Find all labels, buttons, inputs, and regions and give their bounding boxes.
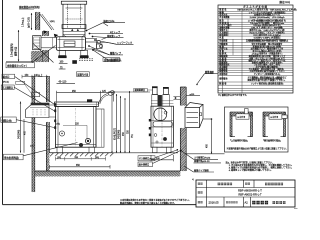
svg-text:本体固定ネジ(2ヶ): 本体固定ネジ(2ヶ) (7, 64, 27, 68)
shower head and hose (99, 90, 116, 104)
dim 950 / 125 (57, 91, 114, 102)
hatch patch below BF top (31, 51, 42, 62)
main body front view (56, 106, 97, 147)
example diagram 2: walls (263, 112, 286, 137)
svg-text:343(346): 343(346) (18, 130, 20, 139)
svg-text:11.6kW (10,000kcal/h)・LPG 0.84: 11.6kW (10,000kcal/h)・LPG 0.84kg/h (250, 16, 285, 19)
wall strip lower (side view) (180, 128, 186, 171)
bottom dim row 2: 650 (49, 165, 110, 169)
svg-text:A2: A2 (245, 201, 249, 205)
bracket above BF top (32, 93, 40, 97)
example 1: unit with top duct (236, 109, 249, 120)
svg-text:RBF-A80SN-RR-L-T: RBF-A80SN-RR-L-T (238, 189, 262, 193)
leaders from left labels (14, 76, 77, 155)
leader label: damper (110, 30, 124, 34)
floor line and legs (49, 147, 112, 153)
black bracket above body (87, 99, 92, 102)
leader label: gas connection (110, 57, 122, 61)
dim ladder left of side view (108, 91, 150, 153)
dashed reference lines (79, 59, 94, 61)
Rinnai logo (252, 201, 268, 205)
spec table cell texts (219, 8, 297, 86)
upper wall strip A (hatched) (35, 12, 40, 30)
boxed label bathroom inner dim (77, 72, 90, 77)
row1 texts (198, 183, 203, 185)
boxed label: gas connection (138, 156, 155, 161)
leader dots on body (86, 30, 96, 51)
body top slab (55, 102, 99, 106)
body centerline (75, 108, 77, 147)
dim 320 horizontal (56, 124, 87, 139)
slanted wall transition (double diagonal) (40, 14, 55, 30)
boxed label right of dashes (103, 58, 120, 62)
dark circle fitting (85, 138, 90, 143)
svg-text:543(546): 543(546) (119, 130, 121, 139)
svg-text:(φ93~120): (φ93~120) (29, 17, 31, 28)
connector through wall (41, 30, 58, 47)
right leader label 1 (182, 151, 219, 160)
exhaust pipe stub unit to wall (173, 96, 180, 99)
450 height dim (186, 118, 224, 154)
ladder arrowheads (111, 91, 130, 153)
svg-text:ガ ス ふ ろ が ま 仕 様: ガ ス ふ ろ が ま 仕 様 (243, 5, 267, 9)
svg-text:1(50): 1(50) (50, 21, 55, 23)
outer wall upper segment (hatched) (32, 76, 35, 103)
right leader label 3 (184, 166, 214, 172)
left boxed label: circulation (1, 117, 16, 122)
svg-text:(30): (30) (95, 157, 99, 159)
BF top hood (3D) (185, 103, 203, 128)
small leader label left (16, 81, 38, 102)
frame left border (2, 0, 4, 205)
dim 100 below body (59, 62, 68, 64)
row3 texts (198, 201, 203, 203)
svg-text:(20): (20) (57, 157, 61, 159)
left dim stack (18, 102, 34, 153)
bottom dim row 1 (56, 157, 106, 161)
small fittings in unit (154, 134, 167, 143)
top label: exhaust tube note (19, 5, 40, 9)
leader label: shower hook (96, 41, 134, 45)
outer wall lower segment (hatched) (32, 118, 35, 193)
floor hatch marks (50, 153, 114, 156)
leader label: vent (103, 19, 125, 26)
black fixture mark (72, 60, 77, 64)
leader label: circulation pipe (92, 49, 123, 55)
body right extension / gas valve (86, 39, 103, 50)
left boxed label: drain plug (4, 154, 24, 160)
lower wall strip B (hatched, holed for duct) (43, 31, 49, 62)
vertical dim text 2.5m bathroom (6, 30, 33, 62)
heater body (side view) (57, 37, 86, 51)
heat exchanger circle (154, 108, 167, 121)
svg-text:(R1/2): (R1/2) (3, 82, 9, 84)
legs with black feet (58, 50, 88, 58)
left boxed label: gas inlet (1, 85, 14, 90)
svg-text:2016.05: 2016.05 (209, 201, 220, 205)
pilot window circle (59, 131, 64, 136)
legs and floor (140, 147, 178, 153)
ground band hatched (35, 171, 181, 176)
side view unit body (151, 106, 173, 147)
title block frame (196, 180, 295, 207)
circulation cover rounded rect (153, 121, 173, 126)
frame bottom border (3, 204, 197, 206)
left boxed label: water inlet (2, 74, 15, 83)
inner wall lower segment (hatched) (46, 122, 49, 171)
bottom-left note (120, 198, 191, 205)
row3 dividers (223, 197, 225, 207)
right notes block (226, 161, 294, 172)
svg-text:(単位:mm): (単位:mm) (279, 0, 290, 4)
leader label: exhaust top (102, 34, 124, 40)
leader diagonals to labels (87, 23, 117, 61)
BF top between walls (front view) (26, 103, 50, 118)
stub labels view3 (134, 88, 195, 96)
page tick bottom right (294, 208, 298, 210)
leaders from bottom labels (153, 150, 181, 164)
spec table row lines (218, 8, 293, 90)
row1 dividers (206, 180, 208, 207)
wall top label (186, 70, 217, 96)
leader X lines from screw label to wall (32, 44, 56, 63)
dim row 150 / 140以上 (22, 73, 49, 79)
top connection cluster (151, 86, 173, 106)
drain dark circle (79, 143, 83, 147)
vertical dim text 1.5m (21, 13, 33, 30)
example 2: unit with side duct (269, 114, 287, 119)
installation examples box (225, 107, 289, 152)
dim 43~120 (57, 82, 76, 84)
spec table outer frame (218, 5, 293, 93)
svg-text:614(LP617): 614(LP617) (114, 128, 116, 140)
body left edge fittings (54, 103, 56, 129)
right leader label 2 (194, 159, 222, 163)
boxed label: body fixing screw (6, 63, 34, 68)
through-wall connection lines (49, 105, 56, 117)
spec table column lines (223, 8, 268, 93)
flue duct (61, 1, 86, 37)
wall strip upper (side view) (180, 87, 186, 106)
BF top box outside wall (side view) (33, 36, 41, 50)
svg-text:RBF-A80S2-RR-L-T: RBF-A80S2-RR-L-T (238, 192, 262, 196)
boxed label: water connection (138, 162, 153, 167)
svg-text:(75): (75) (56, 124, 60, 126)
bottom dim 230 (151, 155, 173, 161)
inner wall upper segment (hatched) (46, 76, 49, 102)
row2: model (198, 191, 203, 193)
unit left edge fittings (149, 119, 151, 136)
dim 75 (59, 67, 66, 69)
leader dots near wall base (177, 149, 182, 151)
example diagram 1: walls (230, 112, 253, 137)
side pipe panel (96, 109, 104, 147)
flue flange at ceiling (62, 25, 86, 37)
